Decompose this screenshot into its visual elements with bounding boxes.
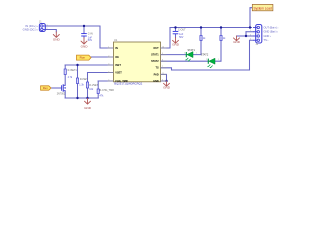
svg-text:GND (Bat-) ›: GND (Bat-) ›	[264, 30, 279, 34]
svg-text:2N7002: 2N7002	[57, 93, 66, 96]
svg-text:7: 7	[162, 66, 163, 68]
svg-text:GND: GND	[81, 45, 89, 49]
svg-text:System Load: System Load	[254, 6, 272, 10]
svg-text:STAT1: STAT1	[188, 49, 196, 52]
svg-text:8: 8	[162, 60, 163, 62]
svg-text:GND (DC-) ›: GND (DC-) ›	[23, 27, 39, 31]
svg-text:VSET: VSET	[115, 71, 122, 74]
svg-text:BQ25171QWDRCRQ1: BQ25171QWDRCRQ1	[114, 81, 142, 85]
svg-text:R-CHG_TMR: R-CHG_TMR	[100, 89, 115, 92]
svg-text:STAT2: STAT2	[201, 53, 209, 56]
svg-text:TS: TS	[155, 67, 159, 70]
svg-text:GND: GND	[172, 43, 180, 47]
svg-text:3: 3	[250, 34, 251, 36]
svg-text:PAD: PAD	[154, 73, 159, 76]
svg-text:2: 2	[206, 59, 207, 61]
svg-text:U1: U1	[114, 38, 118, 42]
svg-text:5: 5	[108, 79, 109, 81]
svg-text:6: 6	[162, 79, 163, 81]
svg-text:4.7k: 4.7k	[68, 76, 73, 79]
svg-text:1: 1	[196, 53, 197, 55]
svg-text:2: 2	[184, 53, 185, 55]
svg-text:OUT: OUT	[153, 47, 159, 50]
svg-text:OUT (Bat+) ›: OUT (Bat+) ›	[264, 25, 279, 29]
svg-text:Run: Run	[80, 56, 86, 60]
svg-text:9: 9	[162, 53, 163, 55]
svg-text:2: 2	[47, 28, 48, 30]
svg-text:2: 2	[108, 55, 109, 57]
svg-text:1: 1	[218, 59, 219, 61]
svg-text:11: 11	[162, 73, 164, 75]
svg-text:STAT1: STAT1	[151, 54, 159, 57]
svg-text:GND: GND	[233, 40, 241, 44]
svg-text:C-IN: C-IN	[88, 32, 93, 35]
svg-text:Run: Run	[43, 86, 48, 90]
svg-text:1.3k: 1.3k	[79, 84, 84, 87]
svg-text:50V: 50V	[88, 39, 93, 42]
svg-text:R-ISET: R-ISET	[80, 78, 88, 81]
svg-text:4: 4	[250, 39, 251, 41]
svg-text:1: 1	[108, 46, 109, 48]
svg-text:GND: GND	[84, 106, 92, 110]
svg-text:GND: GND	[153, 80, 159, 83]
svg-text:ISET: ISET	[115, 64, 121, 67]
svg-text:GND: GND	[53, 37, 61, 41]
svg-text:R-VSET: R-VSET	[89, 84, 98, 87]
svg-text:OE: OE	[115, 56, 119, 59]
svg-text:IN: IN	[115, 47, 118, 50]
svg-text:1: 1	[250, 26, 251, 28]
svg-text:2: 2	[250, 30, 251, 32]
svg-text:4: 4	[108, 71, 109, 73]
svg-text:STAT2: STAT2	[151, 60, 159, 63]
svg-text:TS ›: TS ›	[264, 38, 269, 42]
svg-text:C-OUT: C-OUT	[178, 29, 186, 32]
svg-text:GND: GND	[163, 86, 171, 90]
svg-text:10: 10	[162, 46, 164, 48]
svg-text:50V: 50V	[179, 36, 184, 39]
svg-text:1: 1	[47, 24, 48, 26]
svg-text:R-ISET1: R-ISET1	[68, 69, 78, 72]
svg-text:GND ›: GND ›	[264, 34, 271, 38]
svg-text:3: 3	[108, 63, 109, 65]
